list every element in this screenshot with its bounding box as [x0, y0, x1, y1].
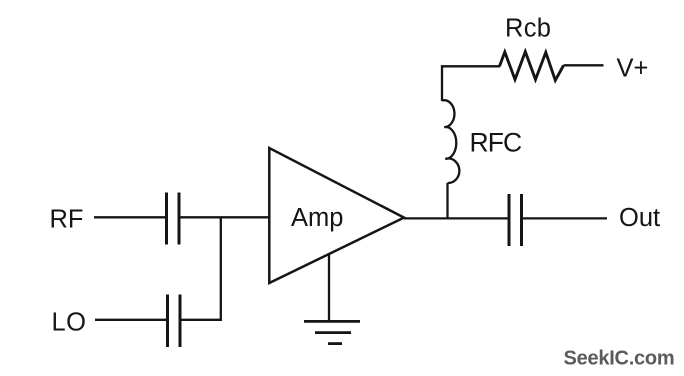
svg-text:Out: Out: [619, 204, 660, 232]
inductor RFC coil: [442, 100, 459, 183]
wire resistor to V+: [564, 64, 604, 66]
svg-text:RFC: RFC: [470, 128, 523, 158]
op-amp U1 Amp triangle: [269, 148, 404, 283]
svg-text:RF: RF: [50, 205, 84, 233]
svg-text:LO: LO: [52, 309, 87, 337]
wire corner to resistor: [441, 65, 500, 67]
wire C2 to junction corner: [181, 319, 222, 321]
svg-text:Rcb: Rcb: [505, 14, 551, 42]
wire RF input lead: [94, 216, 165, 218]
wire amp output to C3: [404, 217, 508, 219]
capacitor C2 (LO coupling): [168, 295, 181, 348]
node output junction / RFC stem: [446, 183, 448, 218]
ground symbol: [304, 321, 360, 343]
wire C3 to Out: [523, 217, 607, 219]
capacitor C1 (RF coupling): [167, 193, 180, 245]
wire coil top stub: [441, 65, 443, 101]
resistor Rcb zigzag: [500, 52, 564, 81]
wire C1 to amp input: [180, 216, 270, 218]
svg-text:V+: V+: [617, 54, 649, 82]
svg-text:Amp: Amp: [291, 204, 343, 232]
wire junction vertical (RF/LO tie): [220, 217, 222, 320]
wire ground stem: [328, 255, 330, 322]
capacitor C3 (output coupling): [509, 194, 522, 246]
wire LO input lead: [95, 319, 167, 321]
svg-text:SeekIC.com: SeekIC.com: [564, 347, 675, 369]
